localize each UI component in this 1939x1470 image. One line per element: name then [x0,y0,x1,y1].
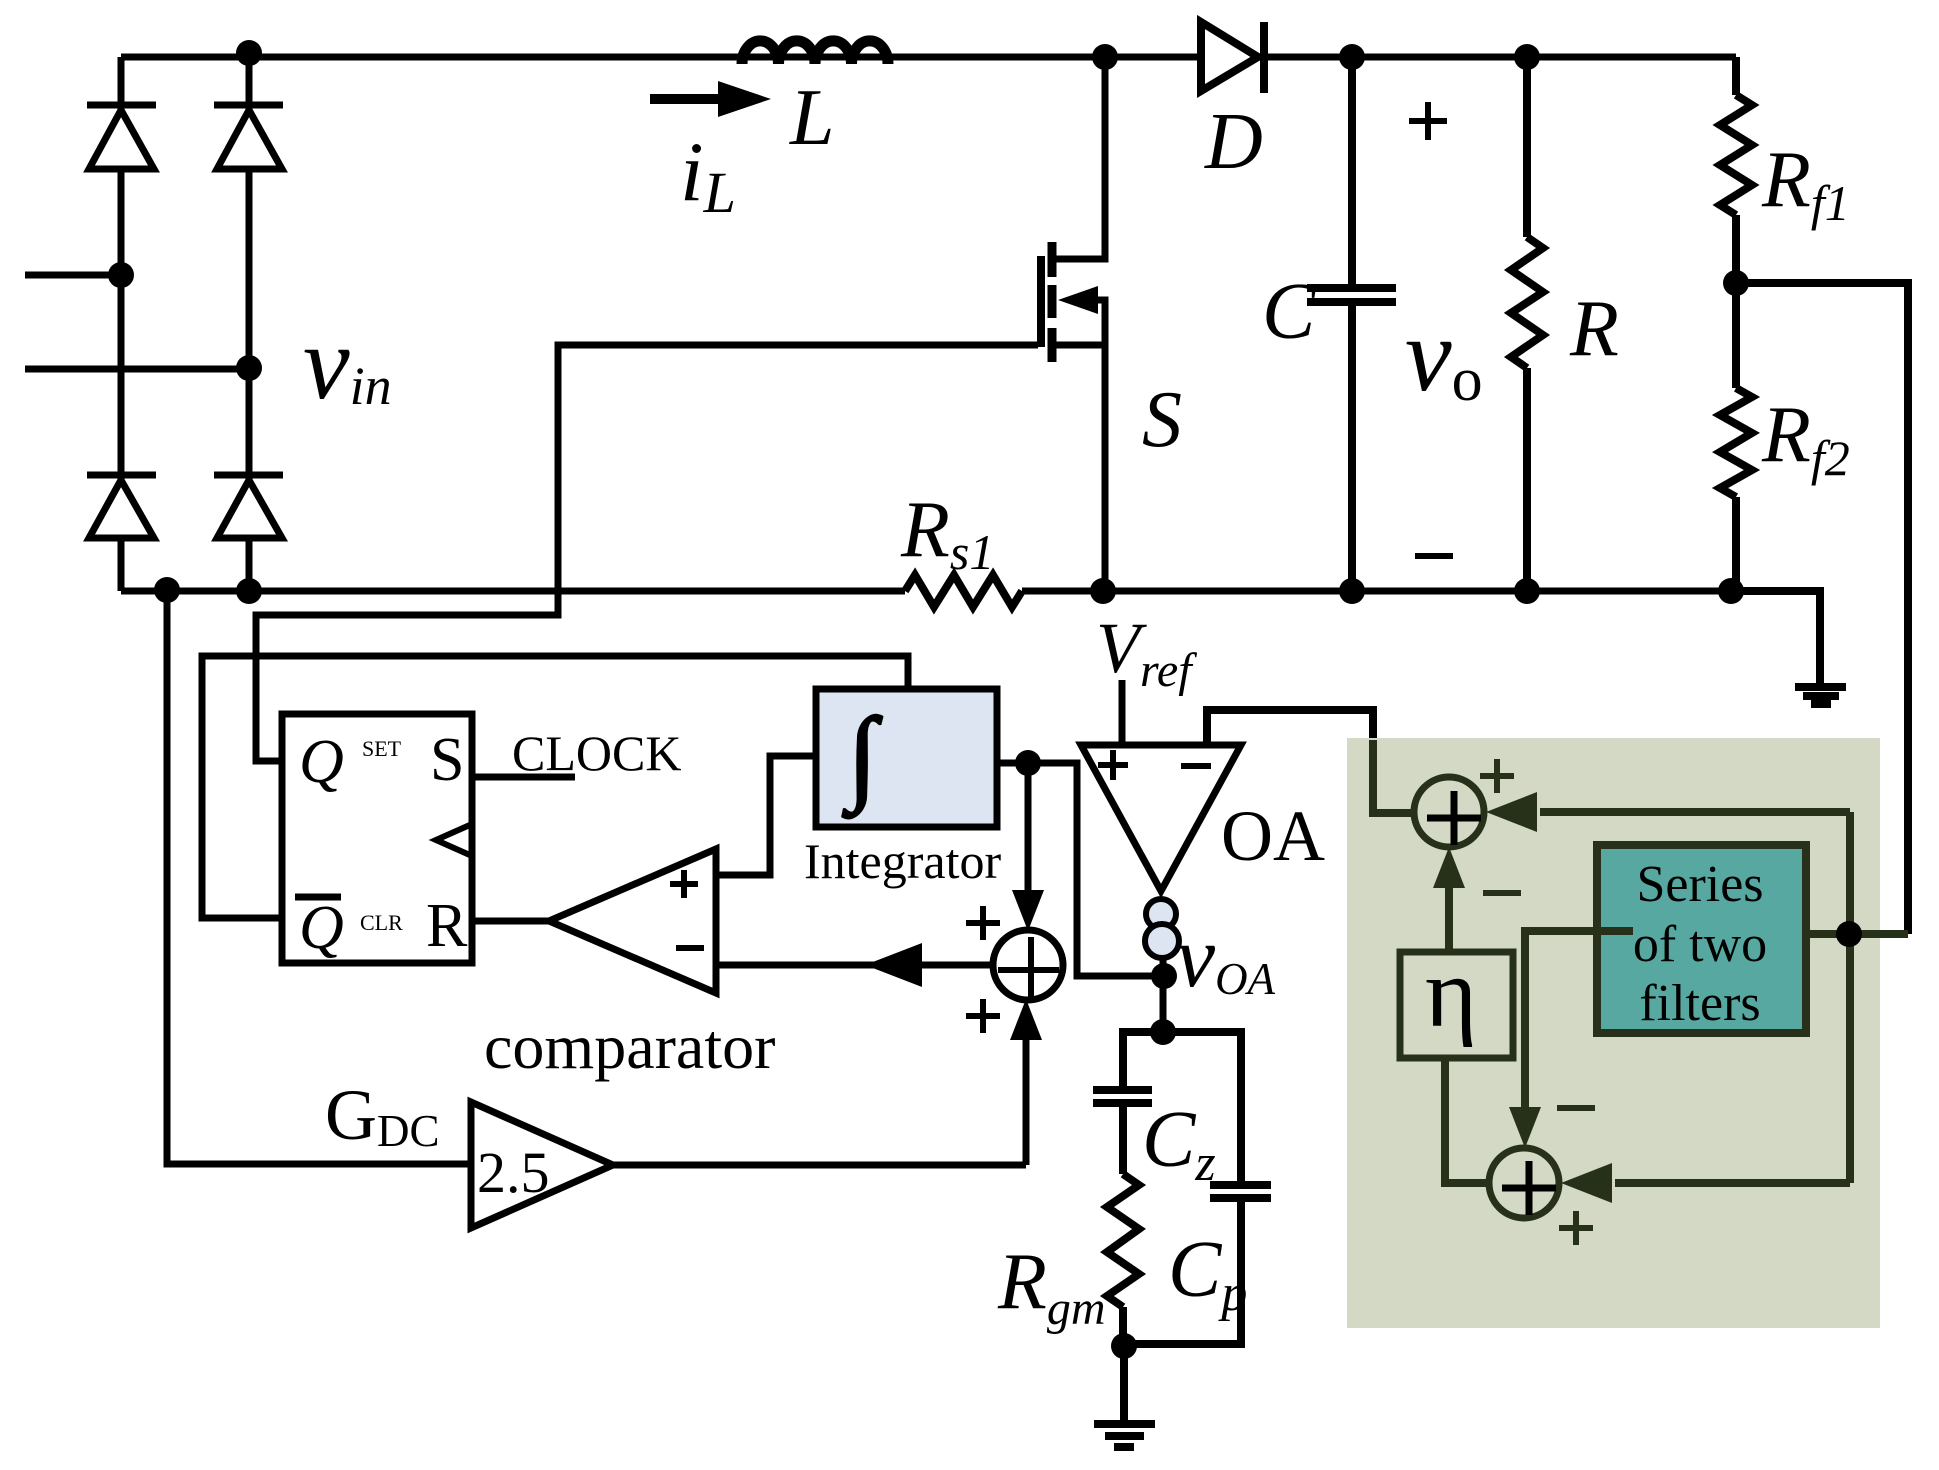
label minus S2 [1483,890,1521,896]
svg-text:Cp: Cp [1168,1226,1247,1322]
svg-text:Rs1: Rs1 [900,486,994,580]
diode bridge D3 (bottom left) [87,475,156,538]
gain GDC triangle [471,1102,613,1228]
wire OA minus to green [1207,710,1373,745]
svg-text:R: R [1569,285,1619,373]
resistor Rs1 [905,575,1022,607]
svg-text:Integrator: Integrator [804,833,1001,889]
svg-text:vo: vo [1405,296,1483,414]
node dot cap bottom [1339,578,1365,604]
wire integrator out [997,763,1166,976]
svg-text:Series: Series [1636,856,1763,913]
summer S2 cross [1427,791,1481,845]
svg-text:vin: vin [303,304,392,421]
summer S3 (green bottom) [1489,1148,1559,1218]
wire bridge left column [118,57,125,591]
integrator box [816,689,997,827]
node dot bridge ac2 [236,355,262,381]
svg-text:2.5: 2.5 [477,1140,550,1205]
op-amp minus [1181,763,1211,769]
summer S2 (green top) [1414,777,1484,847]
node dot R bottom [1514,578,1540,604]
svg-text:L: L [789,74,835,162]
wire sense line down [167,591,471,1164]
wire top rail [121,54,1736,61]
green panel [1347,738,1880,1328]
svg-text:of two: of two [1633,916,1767,973]
wire S2 out to OA [1373,740,1414,813]
svg-text:Rgm: Rgm [997,1238,1106,1335]
wire comparator out to R [472,918,549,925]
ground right [1795,687,1846,704]
wire comparator plus input [716,756,816,875]
resistor Rf1 [1720,57,1752,283]
wire GDC out to summer [613,999,1042,1165]
op-amp OA [1081,745,1241,891]
label plus S1 top [966,906,1000,940]
node dot bridge ac1 [108,262,134,288]
comparator minus [676,945,704,951]
label minus S3 [1557,1105,1595,1111]
comparator U2 [549,849,716,993]
block series of two filters [1597,845,1806,1033]
wire to ground right [1731,591,1820,684]
resistor R (load) [1511,57,1543,591]
svg-text:CLOCK: CLOCK [512,725,681,781]
svg-text:Vref: Vref [1096,608,1197,697]
diode D [1201,22,1264,93]
svg-text:Rf1: Rf1 [1761,136,1850,231]
wire S clock stub [472,774,575,781]
label plus S3 [1559,1211,1593,1245]
svg-text:vOA: vOA [1176,909,1276,1006]
svg-text:C: C [1262,268,1317,356]
node dot rail Rf2 [1718,578,1744,604]
svg-text:CLR: CLR [360,910,403,935]
node dot comp network bottom [1111,1333,1137,1359]
node dot filters input [1836,921,1862,947]
inductor current arrow iL [650,81,771,117]
svg-text:SET: SET [362,736,402,761]
svg-text:filters: filters [1639,975,1760,1032]
svg-text:OA: OA [1221,796,1325,876]
node dot bottom rail left [154,577,180,603]
svg-text:Q: Q [299,728,344,796]
wire summer out to comparator minus [716,943,995,987]
wire gate drive [256,345,1038,761]
wire Qbar to integrator [202,656,908,918]
wire S2 arrow input right [1486,792,1850,832]
svg-text:GDC: GDC [325,1075,440,1156]
node dot bottom rail bridge [236,578,262,604]
wire green vertical [1846,812,1854,1183]
label plus output [1409,102,1447,140]
node dot drain top [1092,44,1118,70]
node dot diode out [1339,44,1365,70]
node dot top rail bridge [236,40,262,66]
svg-text:Rf2: Rf2 [1761,391,1850,486]
wire OA out [1160,956,1167,1032]
wire ac input stub 2 [25,366,249,373]
diode bridge D1 (top left) [87,105,156,169]
inductor L [742,41,888,64]
capacitor Cz branch [1093,1032,1163,1174]
wire Vref stub [1119,680,1126,745]
summer S3 cross [1502,1161,1556,1215]
wire eta to S2 arrow [1433,847,1465,952]
node dot vOA [1151,963,1177,989]
wire ground stem [1120,1346,1128,1420]
wire feedback right vertical [1806,930,1908,938]
op-amp plus [1098,750,1128,780]
node dot divider [1723,270,1749,296]
label plus S2 [1480,759,1514,793]
block eta [1400,952,1513,1058]
svg-text:Q: Q [299,894,344,962]
label plus S1 bottom [966,999,1000,1033]
wire S3 out to eta [1445,1058,1489,1183]
resistor Rf2 [1720,283,1752,591]
transistor S body arrow [1058,286,1098,314]
flip-flop box U1 [282,714,472,963]
node dot source Rs1 [1090,578,1116,604]
node dot integrator out [1015,750,1041,776]
svg-text:R: R [426,892,468,960]
svg-text:comparator: comparator [484,1011,775,1082]
wire bridge right column [246,52,253,591]
wire ac input stub 1 [25,272,121,279]
capacitor C [1307,57,1396,591]
svg-text:Cz: Cz [1142,1096,1216,1192]
wire filters out to S3 [1509,931,1633,1148]
resistor Rgm [1107,1174,1139,1307]
svg-text:η: η [1425,937,1477,1048]
svg-text:S: S [430,726,464,794]
summer S1 [993,930,1063,1000]
svg-text:D: D [1204,98,1263,186]
label Qbar overline [295,894,341,901]
node dot R top [1514,44,1540,70]
wire arrow into summer top [1012,763,1044,931]
op-amp output circles [1146,899,1176,929]
node dot comp network top [1150,1019,1176,1045]
comparator plus [670,870,698,898]
diode bridge D2 (top right) [214,105,283,169]
summer S1 cross [998,937,1059,999]
svg-text:iL: iL [680,125,736,225]
wire bottom rail [121,588,905,595]
svg-text:S: S [1142,376,1182,464]
label minus output [1415,553,1453,559]
wire Rgm bottom [1119,1307,1127,1347]
ground compensation [1094,1424,1155,1447]
transistor S (MOSFET) [1041,57,1105,591]
wire divider tap [1736,283,1908,934]
wire S3 arrow input right [1561,1163,1850,1203]
flip-flop clock wedge [436,824,472,856]
capacitor Cp branch [1124,1032,1271,1344]
diode bridge D4 (bottom right) [214,475,283,538]
